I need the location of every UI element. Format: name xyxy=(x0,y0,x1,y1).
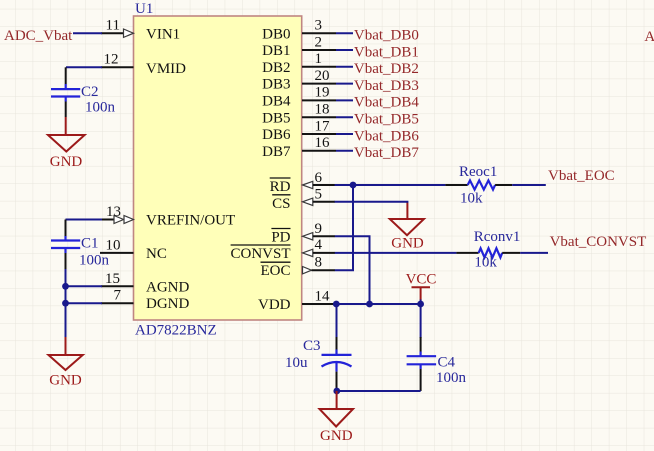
junction VDD/VCC/C4 xyxy=(417,301,424,308)
svg-text:17: 17 xyxy=(315,118,331,134)
svg-text:9: 9 xyxy=(315,221,323,237)
svg-text:GND: GND xyxy=(49,373,82,389)
wire VMID to C2 xyxy=(66,66,102,68)
svg-text:GND: GND xyxy=(391,235,424,251)
svg-text:DGND: DGND xyxy=(146,296,189,312)
svg-text:15: 15 xyxy=(105,271,120,287)
ground below C3/C4 xyxy=(320,391,354,444)
node ADC_Vbat xyxy=(4,28,73,44)
ground below C2 xyxy=(48,117,85,170)
svg-text:RD: RD xyxy=(270,179,291,195)
svg-text:PD: PD xyxy=(271,230,290,246)
svg-text:VMID: VMID xyxy=(146,61,186,77)
svg-text:100n: 100n xyxy=(85,100,116,116)
svg-text:GND: GND xyxy=(320,428,353,444)
wire DB0 xyxy=(336,32,353,34)
junction bottom rail xyxy=(333,388,340,395)
svg-text:6: 6 xyxy=(315,170,323,186)
ground below C1 chain xyxy=(49,337,83,389)
ground at CS xyxy=(390,203,424,252)
pin 3 DB0 xyxy=(262,18,336,43)
wire CS to ground xyxy=(335,202,408,203)
pin 13 VREFIN/OUT xyxy=(101,204,235,229)
pin 10 NC xyxy=(100,238,167,263)
pin 5 CS xyxy=(272,187,335,212)
svg-text:DB7: DB7 xyxy=(262,144,291,160)
svg-text:NC: NC xyxy=(146,246,167,262)
svg-text:13: 13 xyxy=(106,204,121,220)
junction VDD/C3 xyxy=(333,301,340,308)
svg-text:Reoc1: Reoc1 xyxy=(459,164,497,180)
svg-text:1: 1 xyxy=(315,51,323,67)
pin 17 DB6 xyxy=(262,118,336,143)
svg-text:Vbat_DB3: Vbat_DB3 xyxy=(354,78,419,94)
svg-text:Vbat_DB1: Vbat_DB1 xyxy=(354,44,419,60)
resistor Rconv1 xyxy=(456,229,520,271)
svg-text:Vbat_DB4: Vbat_DB4 xyxy=(354,95,419,111)
wire PD to VDD rail xyxy=(335,236,370,304)
svg-text:19: 19 xyxy=(315,85,330,101)
svg-text:12: 12 xyxy=(104,52,119,68)
svg-text:DB3: DB3 xyxy=(262,77,290,93)
wire DB3 xyxy=(336,83,353,85)
wire CONVST to resistor xyxy=(335,252,457,254)
wire DB5 xyxy=(336,116,353,118)
svg-text:Rconv1: Rconv1 xyxy=(474,229,521,245)
svg-text:5: 5 xyxy=(315,187,323,203)
resistor Reoc1 xyxy=(445,164,512,207)
svg-text:CS: CS xyxy=(272,196,290,212)
pin 7 DGND xyxy=(101,288,189,313)
svg-text:10k: 10k xyxy=(460,191,483,207)
capacitor C1 xyxy=(51,220,110,270)
wire C1 down through AGND/DGND junctions xyxy=(65,269,67,337)
svg-text:DB5: DB5 xyxy=(262,110,290,126)
power VCC xyxy=(406,272,437,305)
wire DGND xyxy=(66,302,103,304)
wire Reoc1 to Vbat_EOC xyxy=(512,184,546,186)
pin 12 VMID xyxy=(101,52,186,78)
junction VDD/PD riser xyxy=(366,301,373,308)
svg-text:10k: 10k xyxy=(474,255,497,271)
junction DGND xyxy=(62,300,69,307)
svg-text:VIN1: VIN1 xyxy=(146,26,180,42)
svg-text:C2: C2 xyxy=(81,84,99,100)
svg-text:10: 10 xyxy=(106,238,121,254)
pin 2 DB1 xyxy=(262,34,336,59)
pin 6 RD xyxy=(270,170,335,195)
svg-text:DB1: DB1 xyxy=(262,43,290,59)
junction AGND xyxy=(62,283,69,290)
svg-text:DB6: DB6 xyxy=(262,127,291,143)
svg-text:2: 2 xyxy=(315,34,323,50)
svg-text:14: 14 xyxy=(315,289,331,305)
svg-text:100n: 100n xyxy=(436,370,467,386)
svg-text:A: A xyxy=(644,29,654,45)
svg-text:18: 18 xyxy=(315,102,330,118)
svg-text:11: 11 xyxy=(106,18,120,34)
svg-text:DB4: DB4 xyxy=(262,94,291,110)
svg-text:GND: GND xyxy=(50,154,83,170)
svg-text:C4: C4 xyxy=(438,355,456,371)
wire VDD rail xyxy=(335,303,421,305)
wire ADC_Vbat to pin 11 xyxy=(73,32,102,34)
wire pin13 to C1 xyxy=(66,219,103,221)
wire EOC up to RD xyxy=(335,185,353,270)
wire DB1 xyxy=(336,49,353,51)
pin 19 DB4 xyxy=(262,85,336,110)
capacitor C2 xyxy=(51,67,116,117)
wire RD to resistor xyxy=(335,184,446,186)
pin 14 VDD xyxy=(258,289,335,314)
svg-text:10u: 10u xyxy=(285,355,308,371)
svg-text:CONVST: CONVST xyxy=(230,246,290,262)
svg-text:DB0: DB0 xyxy=(262,26,290,42)
svg-text:Vbat_DB7: Vbat_DB7 xyxy=(354,145,419,161)
svg-text:AGND: AGND xyxy=(146,279,189,295)
pin 20 DB3 xyxy=(262,68,336,93)
junction RD/EOC xyxy=(350,182,357,189)
wire AGND xyxy=(66,285,103,287)
svg-text:C1: C1 xyxy=(81,236,99,252)
op-amp U1 body AD7822BNZ xyxy=(134,1,302,339)
wire DB6 xyxy=(336,133,353,135)
svg-text:7: 7 xyxy=(114,288,122,304)
wire C3/C4 bottom rail xyxy=(337,390,421,392)
svg-text:VREFIN/OUT: VREFIN/OUT xyxy=(146,213,235,229)
pin 9 PD xyxy=(271,221,335,246)
svg-text:EOC: EOC xyxy=(261,263,291,279)
svg-text:16: 16 xyxy=(315,135,331,151)
svg-text:Vbat_DB2: Vbat_DB2 xyxy=(354,61,419,77)
wire DB7 xyxy=(336,150,353,152)
capacitor C3 xyxy=(285,304,352,390)
svg-text:100n: 100n xyxy=(79,253,110,269)
pin 8 EOC xyxy=(261,255,336,280)
svg-text:AD7822BNZ: AD7822BNZ xyxy=(135,323,217,339)
svg-text:8: 8 xyxy=(315,255,323,271)
svg-text:U1: U1 xyxy=(135,1,153,17)
pin 4 CONVST xyxy=(230,237,335,262)
svg-text:ADC_Vbat: ADC_Vbat xyxy=(4,28,73,44)
svg-text:VDD: VDD xyxy=(258,297,291,313)
wire DB2 xyxy=(336,66,353,68)
svg-text:3: 3 xyxy=(315,18,323,34)
svg-text:Vbat_DB5: Vbat_DB5 xyxy=(354,112,419,128)
wire Rconv1 to Vbat_CONVST xyxy=(520,252,548,254)
capacitor C4 xyxy=(407,304,467,391)
svg-text:Vbat_DB0: Vbat_DB0 xyxy=(354,28,419,44)
svg-text:VCC: VCC xyxy=(406,272,437,288)
pin 11 VIN1 xyxy=(101,18,180,43)
svg-text:Vbat_CONVST: Vbat_CONVST xyxy=(550,234,647,250)
pin 1 DB2 xyxy=(262,51,336,76)
pin 15 AGND xyxy=(101,271,189,296)
pin 16 DB7 xyxy=(262,135,336,160)
svg-text:20: 20 xyxy=(315,68,330,84)
svg-text:4: 4 xyxy=(315,237,323,253)
pin 18 DB5 xyxy=(262,102,336,127)
svg-text:Vbat_DB6: Vbat_DB6 xyxy=(354,128,419,144)
svg-text:C3: C3 xyxy=(303,338,321,354)
svg-text:DB2: DB2 xyxy=(262,60,290,76)
svg-text:Vbat_EOC: Vbat_EOC xyxy=(548,168,615,184)
wire DB4 xyxy=(336,99,353,101)
